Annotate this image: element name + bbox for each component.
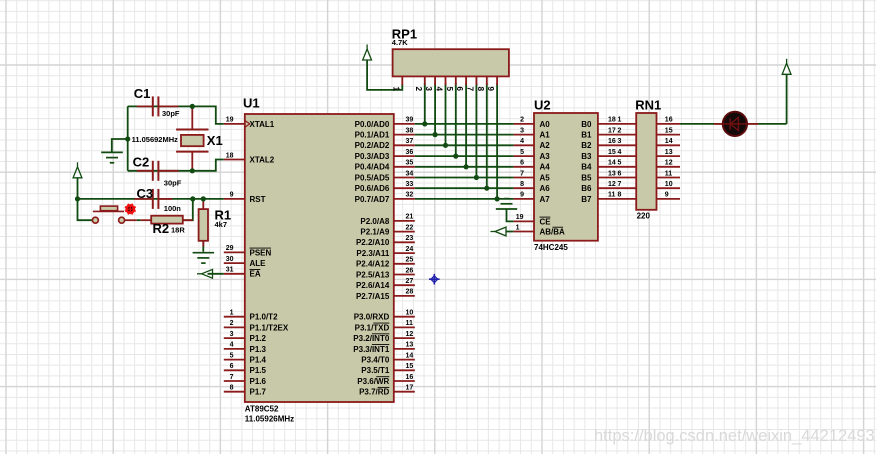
svg-text:4.7K: 4.7K xyxy=(392,38,408,47)
svg-text:28: 28 xyxy=(406,289,414,296)
svg-text:C1: C1 xyxy=(134,86,151,101)
svg-text:RN1: RN1 xyxy=(635,97,661,112)
svg-text:P1.3: P1.3 xyxy=(250,345,267,354)
svg-text:ALE: ALE xyxy=(250,259,267,268)
svg-text:37: 37 xyxy=(406,138,414,145)
svg-text:4: 4 xyxy=(230,342,234,349)
svg-text:10: 10 xyxy=(665,181,673,188)
svg-text:R2: R2 xyxy=(153,221,170,236)
svg-text:P1.6: P1.6 xyxy=(250,377,267,386)
svg-text:A1: A1 xyxy=(540,131,551,140)
svg-text:12: 12 xyxy=(608,181,616,188)
svg-text:2: 2 xyxy=(520,117,524,124)
svg-text:13: 13 xyxy=(406,342,414,349)
svg-text:3: 3 xyxy=(230,331,234,338)
svg-text:1: 1 xyxy=(391,87,400,92)
svg-text:P2.0/A8: P2.0/A8 xyxy=(360,217,389,226)
svg-text:P3.1/TXD: P3.1/TXD xyxy=(355,323,390,332)
svg-text:P2.6/A14: P2.6/A14 xyxy=(356,281,390,290)
svg-text:2: 2 xyxy=(230,320,234,327)
svg-text:P3.0/RXD: P3.0/RXD xyxy=(354,313,390,322)
svg-text:24: 24 xyxy=(406,246,414,253)
svg-text:4: 4 xyxy=(618,149,622,156)
svg-text:P0.3/AD3: P0.3/AD3 xyxy=(355,152,390,161)
svg-text:17: 17 xyxy=(608,127,616,134)
svg-text:8: 8 xyxy=(230,385,234,392)
svg-text:9: 9 xyxy=(230,192,234,199)
svg-text:P1.4: P1.4 xyxy=(250,356,267,365)
svg-text:7: 7 xyxy=(465,87,474,92)
svg-text:P1.5: P1.5 xyxy=(250,366,267,375)
svg-text:12: 12 xyxy=(665,160,673,167)
svg-text:220: 220 xyxy=(637,212,651,221)
svg-text:11: 11 xyxy=(665,170,673,177)
svg-text:A6: A6 xyxy=(540,184,551,193)
svg-text:XTAL1: XTAL1 xyxy=(250,120,275,129)
svg-text:31: 31 xyxy=(226,267,234,274)
svg-text:B3: B3 xyxy=(581,152,592,161)
svg-text:18: 18 xyxy=(226,152,234,159)
svg-text:B5: B5 xyxy=(581,173,592,182)
svg-text:P3.7/RD: P3.7/RD xyxy=(359,388,389,397)
svg-text:16: 16 xyxy=(665,117,673,124)
svg-text:A3: A3 xyxy=(540,152,551,161)
svg-text:35: 35 xyxy=(406,160,414,167)
svg-text:3: 3 xyxy=(618,138,622,145)
svg-text:P0.7/AD7: P0.7/AD7 xyxy=(355,195,390,204)
svg-text:8: 8 xyxy=(520,181,524,188)
svg-text:11: 11 xyxy=(406,320,414,327)
svg-text:10: 10 xyxy=(406,310,414,317)
svg-text:12: 12 xyxy=(406,331,414,338)
svg-text:26: 26 xyxy=(406,267,414,274)
svg-text:6: 6 xyxy=(520,160,524,167)
svg-text:P1.2: P1.2 xyxy=(250,334,267,343)
svg-text:4: 4 xyxy=(435,87,444,92)
svg-text:A2: A2 xyxy=(540,141,551,150)
svg-text:13: 13 xyxy=(665,149,673,156)
svg-text:5: 5 xyxy=(230,352,234,359)
svg-text:18: 18 xyxy=(608,117,616,124)
svg-text:B1: B1 xyxy=(581,131,592,140)
svg-text:32: 32 xyxy=(406,192,414,199)
svg-text:P3.2/INT0: P3.2/INT0 xyxy=(353,334,390,343)
svg-text:17: 17 xyxy=(406,385,414,392)
svg-text:16: 16 xyxy=(608,138,616,145)
svg-text:18R: 18R xyxy=(171,226,185,235)
svg-text:P0.4/AD4: P0.4/AD4 xyxy=(355,163,390,172)
svg-text:EA: EA xyxy=(250,270,261,279)
svg-text:4k7: 4k7 xyxy=(215,220,228,229)
svg-text:P0.6/AD6: P0.6/AD6 xyxy=(355,184,390,193)
svg-text:1: 1 xyxy=(516,224,520,231)
svg-text:9: 9 xyxy=(486,87,495,92)
svg-text:6: 6 xyxy=(455,87,464,92)
svg-text:7: 7 xyxy=(520,170,524,177)
svg-text:P2.4/A12: P2.4/A12 xyxy=(356,260,390,269)
svg-text:P3.5/T1: P3.5/T1 xyxy=(361,366,390,375)
svg-text:74HC245: 74HC245 xyxy=(534,243,568,252)
svg-text:30pF: 30pF xyxy=(162,109,180,118)
svg-text:P0.1/AD1: P0.1/AD1 xyxy=(355,131,390,140)
svg-text:B6: B6 xyxy=(581,184,592,193)
svg-text:1: 1 xyxy=(230,310,234,317)
svg-text:39: 39 xyxy=(406,117,414,124)
svg-text:3: 3 xyxy=(424,87,433,92)
svg-text:11.05926MHz: 11.05926MHz xyxy=(245,414,294,423)
svg-text:P2.3/A11: P2.3/A11 xyxy=(356,249,389,258)
svg-text:XTAL2: XTAL2 xyxy=(250,155,275,164)
svg-text:7: 7 xyxy=(230,374,234,381)
svg-text:14: 14 xyxy=(406,352,414,359)
svg-text:8: 8 xyxy=(618,192,622,199)
svg-text:A7: A7 xyxy=(540,195,551,204)
svg-text:U1: U1 xyxy=(243,96,260,111)
svg-text:38: 38 xyxy=(406,127,414,134)
svg-text:AB/BA: AB/BA xyxy=(540,227,566,236)
svg-text:22: 22 xyxy=(406,224,414,231)
svg-text:AT89C52: AT89C52 xyxy=(245,405,279,414)
svg-text:P0.5/AD5: P0.5/AD5 xyxy=(355,173,390,182)
svg-text:P2.7/A15: P2.7/A15 xyxy=(356,292,390,301)
svg-text:30: 30 xyxy=(226,256,234,263)
svg-text:A4: A4 xyxy=(540,163,551,172)
svg-text:36: 36 xyxy=(406,149,414,156)
svg-text:15: 15 xyxy=(608,149,616,156)
svg-text:5: 5 xyxy=(520,149,524,156)
svg-text:P2.5/A13: P2.5/A13 xyxy=(356,270,390,279)
svg-text:P3.3/INT1: P3.3/INT1 xyxy=(353,345,390,354)
svg-text:30pF: 30pF xyxy=(164,179,182,188)
svg-text:14: 14 xyxy=(665,138,673,145)
svg-text:15: 15 xyxy=(406,363,414,370)
svg-text:P1.1/T2EX: P1.1/T2EX xyxy=(250,323,289,332)
svg-text:34: 34 xyxy=(406,170,414,177)
svg-text:U2: U2 xyxy=(534,97,551,112)
svg-text:11.05692MHz: 11.05692MHz xyxy=(132,135,179,144)
svg-text:9: 9 xyxy=(665,192,669,199)
svg-text:A5: A5 xyxy=(540,173,551,182)
svg-text:2: 2 xyxy=(618,127,622,134)
svg-text:B2: B2 xyxy=(581,141,592,150)
svg-text:5: 5 xyxy=(618,160,622,167)
svg-text:6: 6 xyxy=(618,170,622,177)
svg-text:https://blog.csdn.net/weixin_4: https://blog.csdn.net/weixin_44212493 xyxy=(594,427,875,445)
svg-text:A0: A0 xyxy=(540,120,551,129)
svg-text:P0.2/AD2: P0.2/AD2 xyxy=(355,141,390,150)
svg-text:2: 2 xyxy=(414,87,423,92)
svg-text:100n: 100n xyxy=(164,204,182,213)
svg-text:P2.2/A10: P2.2/A10 xyxy=(356,238,390,247)
svg-text:C2: C2 xyxy=(133,155,150,170)
svg-text:3: 3 xyxy=(520,127,524,134)
svg-text:4: 4 xyxy=(520,138,524,145)
svg-text:13: 13 xyxy=(608,170,616,177)
svg-text:P3.4/T0: P3.4/T0 xyxy=(361,356,390,365)
svg-text:8: 8 xyxy=(476,87,485,92)
svg-text:C3: C3 xyxy=(137,186,154,201)
svg-text:CE: CE xyxy=(540,217,552,226)
svg-text:21: 21 xyxy=(406,214,414,221)
svg-text:5: 5 xyxy=(445,87,454,92)
svg-text:P1.7: P1.7 xyxy=(250,388,267,397)
svg-text:29: 29 xyxy=(226,245,234,252)
svg-text:P2.1/A9: P2.1/A9 xyxy=(360,228,389,237)
svg-text:19: 19 xyxy=(516,214,524,221)
svg-text:15: 15 xyxy=(665,127,673,134)
svg-text:P1.0/T2: P1.0/T2 xyxy=(250,313,279,322)
svg-text:B7: B7 xyxy=(581,195,592,204)
svg-text:X1: X1 xyxy=(207,133,223,148)
svg-text:33: 33 xyxy=(406,181,414,188)
svg-text:23: 23 xyxy=(406,235,414,242)
svg-text:B4: B4 xyxy=(581,163,592,172)
svg-text:6: 6 xyxy=(230,363,234,370)
svg-text:27: 27 xyxy=(406,278,414,285)
svg-text:7: 7 xyxy=(618,181,622,188)
svg-text:11: 11 xyxy=(608,192,616,199)
svg-text:B0: B0 xyxy=(581,120,592,129)
svg-text:PSEN: PSEN xyxy=(250,248,272,257)
svg-text:9: 9 xyxy=(520,192,524,199)
svg-text:19: 19 xyxy=(226,117,234,124)
svg-text:1: 1 xyxy=(618,117,622,124)
svg-text:RST: RST xyxy=(250,195,266,204)
svg-text:14: 14 xyxy=(608,160,616,167)
svg-text:25: 25 xyxy=(406,257,414,264)
svg-text:P0.0/AD0: P0.0/AD0 xyxy=(355,120,390,129)
svg-text:P3.6/WR: P3.6/WR xyxy=(357,377,389,386)
svg-text:16: 16 xyxy=(406,374,414,381)
